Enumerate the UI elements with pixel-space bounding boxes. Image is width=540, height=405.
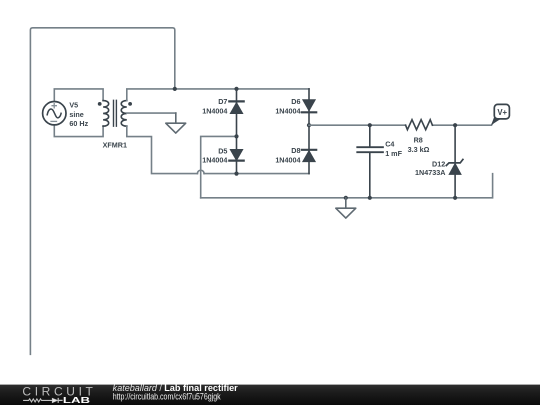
svg-text:60 Hz: 60 Hz: [69, 119, 88, 128]
label D6: [275, 97, 300, 115]
ground (below bridge): [336, 198, 356, 218]
node: junction of top-left loop with top rail: [173, 87, 177, 91]
svg-text:1N4004: 1N4004: [202, 155, 227, 164]
wire: bridge bottom rail: [204, 173, 309, 175]
svg-text:1N4004: 1N4004: [202, 106, 227, 115]
node: D12 top junction: [453, 123, 457, 127]
label D12: [415, 159, 445, 177]
diode D6: [302, 89, 316, 125]
svg-text:V+: V+: [497, 108, 507, 117]
wire: V5 bottom lead to transformer primary bottom: [54, 125, 103, 137]
diode D7: [229, 89, 243, 136]
svg-text:D5: D5: [218, 146, 227, 155]
svg-text:1 mF: 1 mF: [385, 149, 402, 158]
transformer XFMR1: [98, 100, 132, 126]
wire: output rail from bridge to R8: [309, 124, 406, 126]
svg-text:http://circuitlab.com/cx6f7u57: http://circuitlab.com/cx6f7u576gjgk: [113, 391, 221, 401]
node: D12 bottom junction: [453, 196, 457, 200]
node: ground junction: [344, 196, 348, 200]
wire: top-left loop from bridge top node down long left rail: [30, 28, 174, 355]
label V5 value: [69, 100, 88, 128]
wire: secondary bottom lead down and right to bridge bottom: [127, 126, 198, 174]
CircuitLab logo: resistor-diode line: [23, 398, 63, 403]
wire: transformer secondary top to bridge top rail: [127, 89, 309, 101]
node: D7 top junction: [234, 87, 238, 91]
node: D5 bottom junction: [234, 172, 238, 176]
svg-text:D7: D7: [218, 97, 227, 106]
svg-text:XFMR1: XFMR1: [103, 141, 127, 150]
svg-text:C4: C4: [385, 139, 394, 148]
resistor R8: [406, 120, 433, 130]
capacitor C4: [357, 125, 383, 198]
label C4: [385, 139, 402, 158]
svg-text:D8: D8: [291, 146, 300, 155]
ground (transformer tap): [166, 113, 186, 133]
svg-text:LAB: LAB: [63, 396, 91, 405]
wire: bridge left mid node to ground rail: [201, 136, 237, 197]
node: C4 bottom junction: [368, 196, 372, 200]
zener diode D12: [446, 125, 463, 198]
svg-text:R8: R8: [414, 136, 423, 145]
label D5: [202, 146, 227, 164]
terminal V+: [491, 104, 509, 125]
wire: R8 to V+ terminal: [433, 117, 497, 126]
diode D8: [302, 125, 316, 173]
voltage source V5: [43, 102, 66, 125]
svg-text:D6: D6: [291, 97, 300, 106]
label D8: [275, 146, 300, 165]
svg-text:V5: V5: [69, 100, 78, 109]
svg-text:D12: D12: [432, 159, 445, 168]
label R8: [408, 136, 430, 155]
diode D5: [229, 136, 243, 173]
svg-text:sine: sine: [69, 110, 83, 119]
svg-text:1N4004: 1N4004: [275, 155, 300, 164]
svg-text:1N4004: 1N4004: [275, 106, 300, 115]
wire: secondary tap to ground: [127, 112, 176, 114]
svg-text:1N4733A: 1N4733A: [415, 168, 445, 177]
wire: V5 top lead to transformer primary top: [54, 89, 103, 102]
node: bridge left mid: [234, 134, 238, 138]
node: C4 top junction: [368, 123, 372, 127]
wire: ground rail with right stub: [201, 174, 493, 198]
node: bridge right mid (output): [307, 123, 311, 127]
wire hop over ground feed wire: [197, 170, 204, 173]
svg-text:3.3 kΩ: 3.3 kΩ: [408, 145, 430, 154]
label D7: [202, 97, 227, 115]
